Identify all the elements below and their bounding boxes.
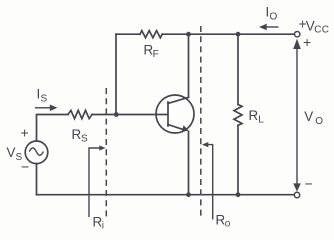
svg-text:S: S <box>41 94 48 105</box>
svg-text:R: R <box>72 127 82 142</box>
svg-text:−: − <box>305 176 313 192</box>
marker Ri <box>89 145 106 231</box>
transistor Q1 <box>156 95 194 133</box>
resistor RL <box>234 34 264 195</box>
svg-text:−: − <box>21 159 29 175</box>
svg-text:+: + <box>303 34 311 50</box>
svg-text:L: L <box>258 115 264 126</box>
svg-text:O: O <box>270 12 278 23</box>
current IS arrow <box>35 87 58 112</box>
svg-text:o: o <box>225 219 231 230</box>
svg-text:F: F <box>153 49 159 60</box>
wire RF left leg vertical <box>115 34 117 114</box>
wire source to RS <box>37 115 69 142</box>
voltage VO arrow <box>293 34 323 192</box>
wire base <box>92 114 168 116</box>
node collector rail junction <box>186 32 191 37</box>
resistor RS <box>68 110 92 144</box>
wire emitter vertical <box>188 131 190 194</box>
svg-text:V: V <box>304 109 313 124</box>
terminal output bottom <box>294 192 299 197</box>
svg-text:CC: CC <box>314 25 329 36</box>
svg-text:O: O <box>315 116 323 127</box>
source VS <box>7 125 48 175</box>
wire source bottom leg <box>36 164 38 195</box>
svg-text:V: V <box>7 145 16 160</box>
wire bottom rail <box>37 194 295 196</box>
node base junction <box>114 112 119 117</box>
svg-text:+: + <box>21 125 29 141</box>
svg-text:S: S <box>81 134 88 145</box>
dashed boundary Ri <box>105 88 107 219</box>
terminal +VCC <box>295 16 330 37</box>
current IO arrow <box>259 5 279 31</box>
svg-text:R: R <box>249 108 259 123</box>
wire top rail right segment <box>162 33 294 35</box>
dashed boundary Ro <box>200 26 202 217</box>
node emitter bottom junction <box>186 192 191 197</box>
resistor RF <box>140 31 162 60</box>
wire collector vertical <box>188 34 190 97</box>
node RL bottom junction <box>236 192 241 197</box>
node RL top junction <box>236 32 241 37</box>
marker Ro <box>202 142 231 230</box>
wire top rail left segment <box>116 33 140 35</box>
svg-text:i: i <box>102 221 104 232</box>
